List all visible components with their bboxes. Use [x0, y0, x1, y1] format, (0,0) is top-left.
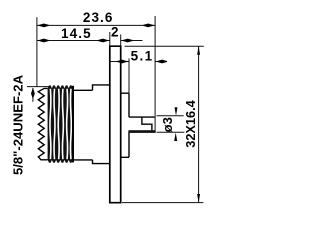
svg-text:23.6: 23.6: [83, 10, 114, 25]
svg-text:5.1: 5.1: [131, 49, 154, 64]
svg-text:5/8"-24UNEF-2A: 5/8"-24UNEF-2A: [10, 74, 25, 175]
svg-text:ø3: ø3: [160, 117, 175, 132]
svg-text:2: 2: [111, 25, 119, 40]
svg-text:32X16.4: 32X16.4: [183, 99, 198, 147]
svg-text:14.5: 14.5: [61, 26, 92, 41]
